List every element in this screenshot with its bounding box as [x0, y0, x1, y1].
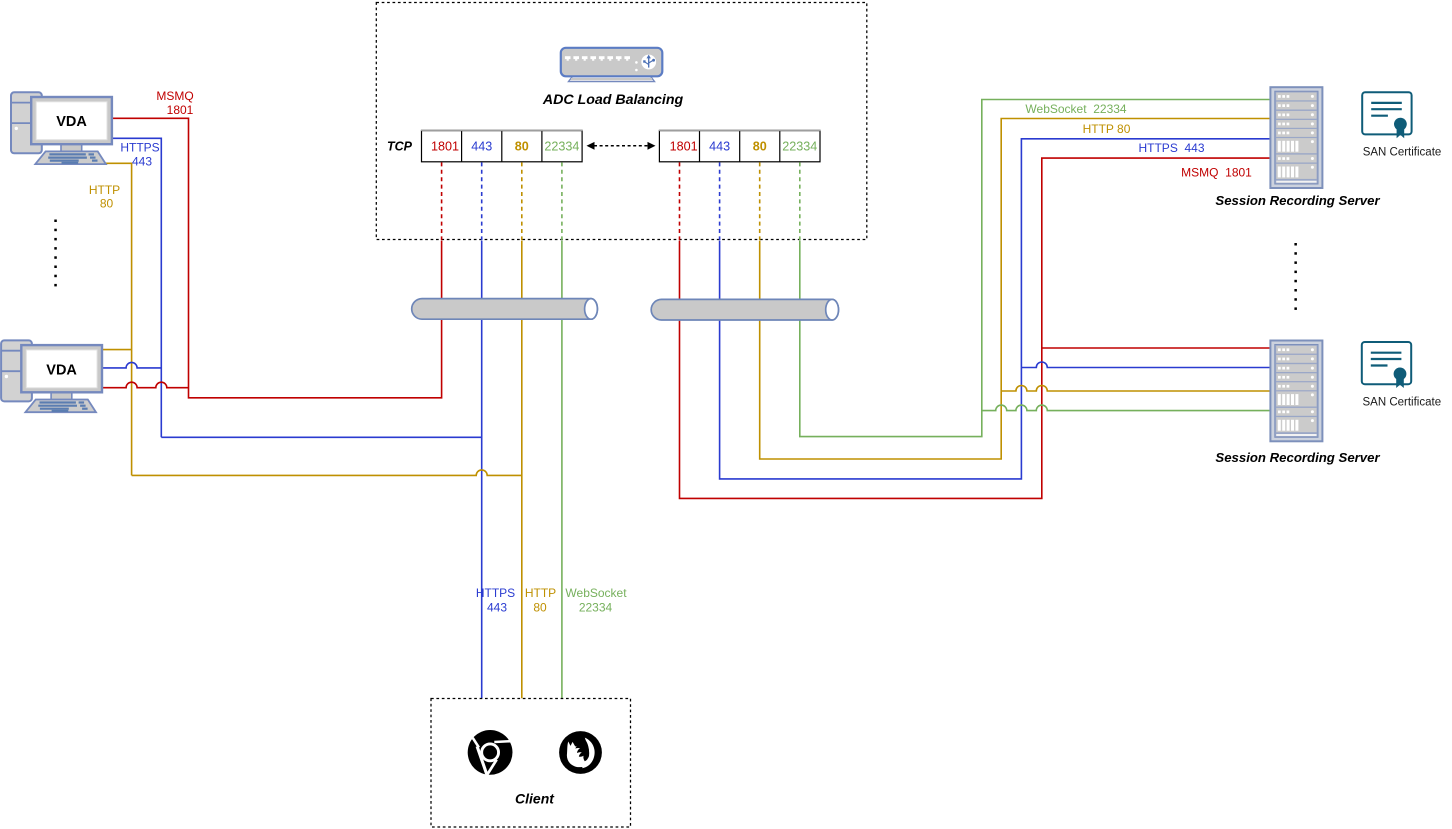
svg-text:TCP: TCP: [387, 140, 413, 154]
SAN certificate icon 1: [1362, 92, 1411, 138]
wire WebSocket dashed stub right table: [799, 162, 801, 240]
wire MSMQ from VDA1 to left table: [112, 118, 442, 398]
network pipe right: [651, 299, 838, 320]
wire MSMQ from VDA2 with two hops: [102, 382, 189, 388]
wire HTTP dashed stub right table: [759, 162, 761, 240]
load balancer appliance icon: [561, 48, 663, 82]
svg-text:443: 443: [132, 154, 152, 168]
svg-text:HTTP 80: HTTP 80: [1083, 122, 1131, 136]
svg-text:443: 443: [471, 140, 492, 154]
svg-text:1801: 1801: [670, 140, 698, 154]
wire HTTPS dashed stub left table: [481, 162, 483, 240]
svg-text:80: 80: [533, 600, 547, 614]
dotted separator left: [54, 220, 57, 287]
svg-text:80: 80: [515, 140, 529, 154]
svg-text:1801: 1801: [431, 140, 459, 154]
svg-text:SAN Certificate: SAN Certificate: [1362, 397, 1441, 409]
port table left: [421, 130, 583, 162]
wire HTTPS vertical table to client: [481, 241, 483, 699]
svg-text:Session Recording Server: Session Recording Server: [1215, 193, 1380, 208]
svg-text:22334: 22334: [544, 140, 579, 154]
svg-text:Client: Client: [515, 790, 555, 806]
chrome browser icon: [468, 730, 513, 776]
network pipe left: [412, 299, 598, 320]
svg-text:22334: 22334: [579, 600, 613, 614]
svg-text:HTTPS: HTTPS: [120, 141, 159, 155]
session recording server rack 2: [1270, 341, 1322, 442]
wire HTTP vertical table to client: [521, 241, 523, 699]
svg-text:443: 443: [487, 600, 507, 614]
svg-text:ADC Load Balancing: ADC Load Balancing: [542, 92, 684, 108]
svg-text:MSMQ: MSMQ: [156, 89, 193, 103]
SAN certificate icon 2: [1362, 342, 1411, 388]
ADC dashed container box: [376, 3, 867, 240]
firefox browser icon: [559, 731, 602, 774]
wire MSMQ right side: table to servers: [680, 158, 1271, 498]
wire WebSocket right side: table to servers: [800, 100, 1271, 437]
svg-text:WebSocket: WebSocket: [565, 586, 627, 600]
wire HTTPS right side: table to servers: [720, 139, 1271, 479]
client dashed box: [431, 699, 631, 828]
wire HTTP right side: table to servers: [760, 119, 1271, 460]
session recording server rack 1: [1270, 87, 1322, 188]
svg-text:VDA: VDA: [46, 362, 77, 378]
VDA workstation 2: [1, 340, 102, 412]
svg-text:Session Recording Server: Session Recording Server: [1215, 450, 1380, 465]
wire MSMQ dashed stub right table: [679, 162, 681, 240]
port table right: [659, 130, 821, 162]
svg-text:MSMQ 1801: MSMQ 1801: [1181, 166, 1252, 180]
wire HTTPS from VDA1 down: [112, 138, 161, 437]
wire HTTP branch to server2 with hops: [1001, 386, 1270, 392]
wire WebSocket vertical table to client: [561, 241, 563, 699]
dotted separator right: [1294, 243, 1297, 310]
VDA workstation 1: [11, 92, 112, 164]
wire HTTPS horizontal to client drop: [161, 436, 481, 438]
wire WebSocket dashed stub left table: [561, 162, 563, 240]
wire HTTP from VDA1 keyboard down: [61, 163, 132, 475]
wire HTTPS branch to server2 with hop: [1021, 362, 1270, 368]
wire HTTP dashed stub left table: [521, 162, 523, 240]
svg-text:443: 443: [709, 140, 730, 154]
wire HTTP horizontal with hop over HTTPS: [132, 470, 522, 476]
dashed double arrow between tables: [587, 142, 656, 150]
svg-text:VDA: VDA: [56, 114, 87, 130]
wire MSMQ branch to server2: [1042, 347, 1271, 349]
svg-text:HTTPS: HTTPS: [476, 586, 515, 600]
wire WebSocket branch to server2 with hops: [982, 405, 1271, 411]
svg-text:1801: 1801: [167, 103, 194, 117]
svg-text:80: 80: [753, 140, 767, 154]
svg-text:80: 80: [100, 197, 114, 211]
wire HTTPS from VDA2 with hop: [102, 362, 161, 368]
svg-text:HTTP: HTTP: [525, 586, 556, 600]
svg-text:22334: 22334: [782, 140, 817, 154]
wire HTTPS dashed stub right table: [719, 162, 721, 240]
svg-text:HTTP: HTTP: [89, 183, 120, 197]
svg-text:SAN Certificate: SAN Certificate: [1363, 147, 1442, 159]
wire MSMQ dashed stub left table: [441, 162, 443, 240]
svg-text:HTTPS 443: HTTPS 443: [1138, 141, 1204, 155]
svg-text:WebSocket 22334: WebSocket 22334: [1025, 102, 1127, 116]
wire HTTP from VDA2: [102, 349, 132, 351]
